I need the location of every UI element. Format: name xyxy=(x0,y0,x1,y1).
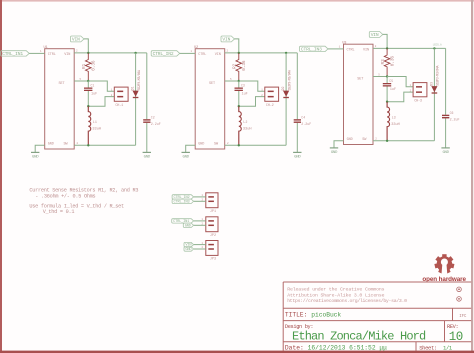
svg-text:GND: GND xyxy=(32,156,39,160)
svg-text:VIN: VIN xyxy=(64,53,70,57)
resistor R2 0.36 ohm (current sense) xyxy=(236,53,242,81)
wire SET pin, channel 1 xyxy=(74,80,88,82)
ground symbol under IC U2 xyxy=(182,151,190,153)
inductor L1 33uH xyxy=(88,106,90,145)
svg-text:16/12/2013 6:51:52 μμ: 16/12/2013 6:51:52 μμ xyxy=(308,345,388,352)
wire JP1 pin 2 xyxy=(194,200,206,202)
svg-text:Sheet:: Sheet: xyxy=(419,344,437,351)
wire GND pin, channel 2 xyxy=(186,145,196,152)
wire GND pin, channel 3 xyxy=(334,141,344,148)
ground symbol under C4 xyxy=(293,151,301,153)
capacitor C5 1uF plates xyxy=(383,83,391,84)
svg-text:CTRL_IN3: CTRL_IN3 xyxy=(301,46,322,52)
connector CH-2 pin stub 1 xyxy=(268,91,274,93)
svg-text:CTRL_IN2: CTRL_IN2 xyxy=(153,51,174,57)
channel 1 buck LED driver circuit xyxy=(1,36,161,160)
junction VIN/D1 xyxy=(134,52,136,54)
wire lower node to connector pin 2, channel 2 xyxy=(239,97,265,107)
svg-text:C3: C3 xyxy=(241,84,245,88)
title block vertical divider IFC box xyxy=(452,308,454,320)
svg-text:GND: GND xyxy=(442,151,449,155)
power flag VIN, channel 3 xyxy=(369,32,383,38)
svg-text:C6: C6 xyxy=(450,111,454,115)
junction SW/L3 xyxy=(386,140,388,142)
svg-text:R1: R1 xyxy=(82,63,87,69)
junction SW/L2 xyxy=(238,144,240,146)
title block row divider (license/title) xyxy=(283,307,471,309)
svg-text:GND: GND xyxy=(198,142,204,146)
svg-text:SET: SET xyxy=(59,82,65,86)
net flag CTRL_IN2 xyxy=(151,51,180,56)
ground symbol under C6 xyxy=(441,147,449,149)
ground symbol under IC U1 xyxy=(31,151,39,153)
svg-text:2.2uF: 2.2uF xyxy=(151,122,161,126)
inductor L3 33uH xyxy=(387,102,389,141)
wire VIN rail corner down through C2, channel 1 xyxy=(146,53,148,119)
wire SET column through C5 xyxy=(386,77,388,84)
junction VIN/D3 xyxy=(433,47,435,49)
wire CTRL pin, channel 2 xyxy=(180,52,196,54)
svg-text:U1: U1 xyxy=(44,46,48,50)
connector JP2 pin stub 1 xyxy=(208,220,214,222)
svg-text:C4: C4 xyxy=(301,115,305,119)
svg-text:1uF: 1uF xyxy=(91,93,97,97)
connector CH-1 pin stub 1 xyxy=(117,91,123,93)
capacitor C1 1uF plates xyxy=(84,88,92,89)
svg-text:- .36ohm +/- 0.5 Ohms: - .36ohm +/- 0.5 Ohms xyxy=(35,193,95,199)
wire SET node to connector pin 1, channel 1 xyxy=(88,81,114,91)
frame border left xyxy=(0,0,2,353)
power flag VIN, channel 2 xyxy=(221,36,235,42)
svg-text:picoBuck: picoBuck xyxy=(311,311,341,318)
svg-text:JP1: JP1 xyxy=(210,210,216,214)
svg-text:GND: GND xyxy=(331,151,338,155)
svg-text:Date:: Date: xyxy=(285,345,304,352)
title block row divider (title/design) xyxy=(283,320,471,322)
svg-text:VIN: VIN xyxy=(371,32,379,38)
svg-text:Ethan Zonca/Mike Hord: Ethan Zonca/Mike Hord xyxy=(292,330,426,344)
svg-text:SET: SET xyxy=(357,77,363,81)
wire SW pin, channel 2 xyxy=(225,144,286,146)
title block row divider (design/date) xyxy=(283,341,471,343)
connector CH-3 pin stub 1 xyxy=(416,86,422,88)
svg-text:VIN: VIN xyxy=(363,48,369,52)
connector CH-1 pin stub 2 xyxy=(117,96,123,98)
svg-text:L2: L2 xyxy=(243,121,247,125)
svg-text:C5: C5 xyxy=(389,79,393,83)
net flag CTRL_IN3 xyxy=(300,46,329,51)
open source hardware gear logo xyxy=(435,254,454,274)
junction VIN/R3 xyxy=(386,47,388,49)
wire VIN flag to VIN rail, channel 1 xyxy=(84,39,88,53)
junction VIN/D2 xyxy=(285,52,287,54)
svg-text:CTRL: CTRL xyxy=(198,53,206,57)
schottky diode D3 SS2P3 xyxy=(431,86,437,92)
wire JP2 pin 1 xyxy=(194,220,206,222)
wire SW pin, channel 3 xyxy=(373,140,434,142)
net flag GND at JP2 pin 2 xyxy=(183,223,193,227)
wire VIN flag to VIN rail, channel 3 xyxy=(383,34,387,48)
net flag GND at JP3 pin 2 xyxy=(184,247,194,251)
wire VIN pin rail, channel 2 xyxy=(225,52,298,54)
op-amp-style LED driver IC U1 (AL8805) body xyxy=(45,49,74,149)
wire SET pin, channel 2 xyxy=(225,80,239,82)
connector JP1 pin stub 1 xyxy=(208,196,214,198)
ground symbol under C2 xyxy=(143,151,151,153)
junction SET/R1 xyxy=(87,80,89,82)
power flag VIN, channel 1 xyxy=(71,36,85,42)
svg-text:GND: GND xyxy=(185,248,191,252)
resistor R1 0.36 ohm (current sense) xyxy=(86,53,92,81)
svg-text:D2: D2 xyxy=(282,86,286,90)
svg-text:1uF: 1uF xyxy=(390,88,396,92)
svg-text:SS2P3-M3/84A: SS2P3-M3/84A xyxy=(137,70,141,90)
wire SET column through C3 xyxy=(238,81,240,88)
svg-text:R2: R2 xyxy=(233,63,238,69)
junction lower node, channel 3 xyxy=(386,101,388,103)
wire CTRL pin, channel 3 xyxy=(328,48,344,50)
wire lower node to connector pin 2, channel 1 xyxy=(88,97,114,107)
svg-text:U3: U3 xyxy=(342,42,346,46)
net flag CTRL_IN2 at JP1 pin 1 xyxy=(172,195,194,199)
junction VIN/R1 xyxy=(87,52,89,54)
svg-text:2.2uF: 2.2uF xyxy=(450,118,460,122)
net flag CTRL_IN3 at JP1 pin 2 xyxy=(172,199,194,203)
svg-text:JP3: JP3 xyxy=(210,258,216,262)
svg-text:CTRL_IN3: CTRL_IN3 xyxy=(174,200,190,204)
svg-text:IFC: IFC xyxy=(459,315,467,319)
svg-text:CTRL_IN1: CTRL_IN1 xyxy=(2,51,23,57)
frame border bottom xyxy=(0,351,474,353)
wire GND pin, channel 1 xyxy=(35,145,45,152)
svg-text:1uF: 1uF xyxy=(242,93,248,97)
channel 2 buck LED driver circuit xyxy=(151,36,311,160)
svg-text:Released under the Creative Co: Released under the Creative Commons xyxy=(287,286,384,292)
wire SET pin, channel 3 xyxy=(373,76,387,78)
svg-text:TITLE:: TITLE: xyxy=(285,311,307,318)
inductor L2 33uH xyxy=(239,106,241,145)
frame border right xyxy=(471,0,473,353)
svg-text:JP2: JP2 xyxy=(210,234,216,238)
svg-text:CH-1: CH-1 xyxy=(115,104,123,108)
svg-text:GND: GND xyxy=(347,138,353,142)
junction SET/R2 xyxy=(238,80,240,82)
junction lower node, channel 2 xyxy=(238,105,240,107)
svg-text:VIN: VIN xyxy=(72,37,80,43)
capacitor C2 2.2uF plates xyxy=(143,119,150,120)
ground symbol under IC U3 xyxy=(330,147,338,149)
svg-text:https://creativecommons.org/li: https://creativecommons.org/licenses/by-… xyxy=(287,298,407,304)
svg-text:0.36: 0.36 xyxy=(92,60,97,71)
connector JP1 body xyxy=(206,193,218,208)
CC icon circle 2 xyxy=(457,297,462,302)
frame border top xyxy=(0,0,474,2)
net flag VIN at JP3 pin 1 xyxy=(184,242,194,246)
channel 3 buck LED driver circuit xyxy=(300,32,460,156)
junction VIN/R2 xyxy=(238,52,240,54)
svg-text:2.2uF: 2.2uF xyxy=(301,122,311,126)
wire CTRL pin, channel 1 xyxy=(29,52,45,54)
wire SET column through C1 xyxy=(87,81,89,88)
svg-text:33uH: 33uH xyxy=(243,127,252,131)
wire VIN rail corner down through C4, channel 2 xyxy=(296,53,298,119)
svg-text:LED3_A: LED3_A xyxy=(433,44,442,47)
connector JP3 body xyxy=(206,241,218,256)
wire JP2 pin 2 xyxy=(194,224,206,226)
wire VIN rail corner down through C6, channel 3 xyxy=(445,48,447,114)
capacitor C6 2.2uF plates xyxy=(442,115,449,116)
op-amp-style LED driver IC U3 (AL8805) body xyxy=(344,44,374,144)
resistor R3 0.36 ohm (current sense) xyxy=(384,48,390,76)
capacitor C4 2.2uF plates xyxy=(294,119,301,120)
wire SW pin, channel 1 xyxy=(74,144,135,146)
connector JP2 pin stub 2 xyxy=(208,225,214,227)
svg-text:1/1: 1/1 xyxy=(443,344,453,351)
svg-text:33uH: 33uH xyxy=(391,123,400,127)
connector JP3 pin stub 2 xyxy=(208,248,214,250)
title block outer frame xyxy=(283,282,471,351)
connector JP2 body xyxy=(206,217,218,232)
schottky diode D1 SS2P3 xyxy=(133,91,139,97)
svg-text:C2: C2 xyxy=(151,115,155,119)
op-amp-style LED driver IC U2 (AL8805) body xyxy=(195,49,225,149)
svg-text:CTRL: CTRL xyxy=(347,48,355,52)
svg-text:CTRL: CTRL xyxy=(48,53,56,57)
wire SET node to connector pin 1, channel 3 xyxy=(387,77,413,87)
svg-text:0.36: 0.36 xyxy=(390,56,395,67)
svg-text:GND: GND xyxy=(294,156,301,160)
title block vertical divider Sheet box xyxy=(415,342,417,351)
capacitor C3 1uF plates xyxy=(235,88,243,89)
svg-text:GND: GND xyxy=(144,156,151,160)
svg-text:SS2P3-M3/84A: SS2P3-M3/84A xyxy=(287,70,291,90)
svg-text:GND: GND xyxy=(48,142,54,146)
svg-text:U2: U2 xyxy=(194,46,198,50)
junction lower node, channel 1 xyxy=(87,105,89,107)
svg-text:R3: R3 xyxy=(381,59,386,65)
svg-text:Attribution Share-Alike 3.0 Li: Attribution Share-Alike 3.0 License xyxy=(287,292,384,298)
svg-text:D1: D1 xyxy=(132,86,136,90)
junction SET/R3 xyxy=(386,75,388,77)
net flag CTRL_IN1 at JP2 pin 1 xyxy=(172,219,194,223)
svg-text:SS2P3-M3/84A: SS2P3-M3/84A xyxy=(436,65,440,85)
svg-text:CH-2: CH-2 xyxy=(266,104,274,108)
wire lower node to connector pin 2, channel 3 xyxy=(387,92,413,102)
svg-text:C1: C1 xyxy=(91,84,95,88)
svg-text:10: 10 xyxy=(449,330,463,344)
connector JP3 pin stub 1 xyxy=(208,244,214,246)
svg-text:VIN: VIN xyxy=(215,53,221,57)
connector CH-3 pin stub 2 xyxy=(416,91,422,93)
connector CH-2 pin stub 2 xyxy=(268,96,274,98)
junction SW/L1 xyxy=(87,144,89,146)
net flag CTRL_IN1 xyxy=(1,51,30,56)
svg-text:33uH: 33uH xyxy=(92,127,101,131)
wire VIN flag to VIN rail, channel 2 xyxy=(235,39,239,53)
svg-text:L3: L3 xyxy=(392,116,396,120)
connector CH-1 (LED output molex) body xyxy=(114,87,128,101)
svg-text:GND: GND xyxy=(183,156,190,160)
schottky diode D2 SS2P3 xyxy=(283,91,289,97)
connector CH-3 (LED output molex) body xyxy=(413,83,427,97)
svg-text:VIN: VIN xyxy=(222,37,230,43)
wire JP1 pin 1 xyxy=(194,196,206,198)
svg-text:L1: L1 xyxy=(93,121,97,125)
title block vertical divider REV box xyxy=(444,321,446,342)
wire JP3 pin 2 xyxy=(194,248,206,250)
wire VIN pin rail, channel 3 xyxy=(373,47,446,49)
wire diode rail, channel 1 xyxy=(135,53,137,145)
wire diode rail, channel 3 xyxy=(433,48,435,140)
svg-text:CH-3: CH-3 xyxy=(414,99,422,103)
connector CH-2 (LED output molex) body xyxy=(265,87,279,101)
CC icon circle 1 xyxy=(457,287,462,292)
wire JP3 pin 1 xyxy=(194,244,206,246)
svg-text:GND: GND xyxy=(185,224,191,228)
svg-text:V_thd = 0.1: V_thd = 0.1 xyxy=(43,209,75,215)
wire diode rail, channel 2 xyxy=(285,53,287,145)
svg-text:D3: D3 xyxy=(430,82,434,86)
wire SET node to connector pin 1, channel 2 xyxy=(239,81,265,91)
svg-text:SET: SET xyxy=(209,82,215,86)
connector JP1 pin stub 2 xyxy=(208,201,214,203)
svg-text:0.36: 0.36 xyxy=(242,60,247,71)
wire VIN pin rail, channel 1 xyxy=(74,52,147,54)
